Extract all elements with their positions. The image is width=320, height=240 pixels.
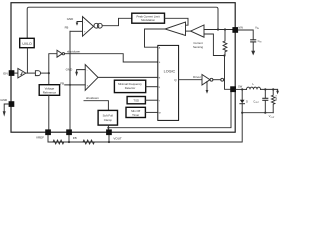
node enable junction [48,72,50,74]
node top loop joins rail [217,28,219,30]
svg-text:VIN: VIN [239,26,243,30]
minimal frequency detector box [114,80,145,92]
wire buffer to AND gate [26,72,36,74]
wire enable node down through reference [48,73,50,85]
svg-text:shutdown: shutdown [67,50,81,54]
wire FB to comparator U1 [70,30,83,32]
wire gate output to reference rail [41,72,49,74]
svg-text:GND: GND [0,98,8,102]
node FB junction [69,84,71,86]
svg-text:LOAD: LOAD [275,96,278,102]
svg-text:Detector: Detector [125,86,136,90]
ground symbol CIN [251,42,255,55]
wire shutdown to soft clamp [84,101,108,111]
wire FB stub to divider [68,135,70,142]
node COUT top [264,88,266,90]
ground symbol at GND pin [3,104,9,117]
svg-text:COUT: COUT [253,99,260,104]
svg-text:SW: SW [238,85,243,89]
resistor load [272,89,278,112]
ground arrow driver [206,82,209,94]
node COUT bottom [264,112,266,114]
wire UVLO to EN gate [26,48,28,73]
output bubbles comparator U1 [97,23,102,28]
svg-text:FB: FB [60,81,64,85]
svg-text:M: M [159,113,161,115]
wire drain line to switch [225,56,231,90]
svg-text:VOUT: VOUT [113,137,122,141]
svg-text:GND: GND [66,67,74,71]
svg-text:VIN: VIN [255,25,259,30]
svg-text:Reference: Reference [43,90,57,94]
wire TSD to LOGIC [145,99,157,101]
wire top loop VIN rail feed [27,7,218,38]
node clamp line junction [107,127,109,129]
wire enable node up to shutdown inverter [49,54,57,73]
wire EN to buffer [14,72,18,74]
wire peak box to comparator A input [165,18,189,25]
wire comparator A output to LOGIC input A [145,29,166,47]
node diode junction [241,88,243,90]
transistor Q1 gate bubble [221,78,224,81]
svg-text:GND: GND [67,17,73,21]
ground arrow U2 [75,70,85,77]
svg-text:Driver: Driver [193,75,201,79]
svg-text:Timer: Timer [132,113,139,117]
wire LOGIC Q to driver [179,79,202,81]
node sense resistor top [224,28,226,30]
svg-text:VREF: VREF [36,136,44,140]
wire comparator B lower input to sense node [204,34,223,56]
svg-text:UVLO: UVLO [22,42,32,46]
wire comparator B output to comparator A [186,30,191,32]
wire clamp to VOUT pin [107,125,109,129]
wire FB to U2 [65,84,86,86]
pin VIN [232,26,243,33]
buffer driver [202,75,213,86]
node VOUT return junction [108,141,110,143]
pin SW [230,85,243,93]
pin VOUT [106,129,122,140]
voltage reference box [39,85,59,96]
pin VREF [36,129,51,139]
wire VIN rail [204,29,232,31]
svg-text:Sensing: Sensing [193,45,204,49]
buffer EN comparator with hysteresis [18,69,26,78]
AND gate enable [35,71,40,76]
node FB divider junction [68,141,70,143]
pin EN [3,70,14,76]
peak current limit modulation box [132,13,165,23]
svg-text:TSD: TSD [133,99,139,103]
comparator U1 error FB top [83,17,94,37]
amplifier U2 error FB [85,65,98,91]
wire driver to gate [213,79,221,81]
svg-text:CIN: CIN [258,39,262,44]
wire detector to LOGIC [146,86,158,88]
pin GND [0,98,14,107]
svg-text:D: D [246,100,248,104]
resistor R1 divider [48,140,64,144]
wire VIN external [238,30,253,40]
svg-text:L: L [253,82,255,86]
wire VOUT stub to return [108,135,110,142]
inductor L [242,82,260,90]
inverter shutdown [57,50,65,57]
wire U1 output to peak limit box [102,18,132,25]
soft full clamp box [98,110,117,125]
comparator B current sense [191,25,204,37]
TSD box [127,97,145,104]
node diode bottom junction [241,112,243,114]
wire SW to diode node [236,88,242,90]
resistor sense [223,30,227,56]
wire VOUT rail return [48,113,242,142]
UVLO box U-V [20,38,35,47]
ground arrow output rail [276,89,279,94]
svg-text:EN: EN [3,71,7,75]
node sense resistor bottom [223,54,225,56]
diode D catch [240,89,248,112]
wire FB net vertical [69,31,71,129]
wire VOUT rail [242,112,273,114]
svg-text:LOGIC: LOGIC [164,69,176,73]
svg-text:Modulation: Modulation [141,18,155,22]
wire U2 output to LOGIC input E [98,76,158,78]
ground arrow comparator U1 [76,22,83,26]
svg-text:shutdown: shutdown [86,96,99,100]
capacitor CIN [251,39,262,44]
svg-text:VOUT: VOUT [269,114,276,119]
pin FB [66,129,76,140]
wire VREF stub to divider [47,135,49,142]
LOGIC box [158,45,179,120]
node load top [272,88,274,90]
capacitor COUT [253,89,267,112]
min off timer box [126,107,145,117]
comparator A peak current [165,22,186,36]
wire reference to VREF pin [48,95,50,129]
wire timer to LOGIC [145,111,157,113]
svg-text:Clamp: Clamp [104,118,113,122]
svg-text:FB: FB [73,136,77,140]
wire output node rail [261,88,278,90]
resistor R2 divider [64,140,109,144]
wire shutdown to LOGIC input S [65,54,158,62]
IC outline border [11,3,235,133]
svg-text:FB: FB [65,26,69,30]
svg-text:Soft Full: Soft Full [103,113,114,117]
wire clamp line to SW [108,92,231,128]
